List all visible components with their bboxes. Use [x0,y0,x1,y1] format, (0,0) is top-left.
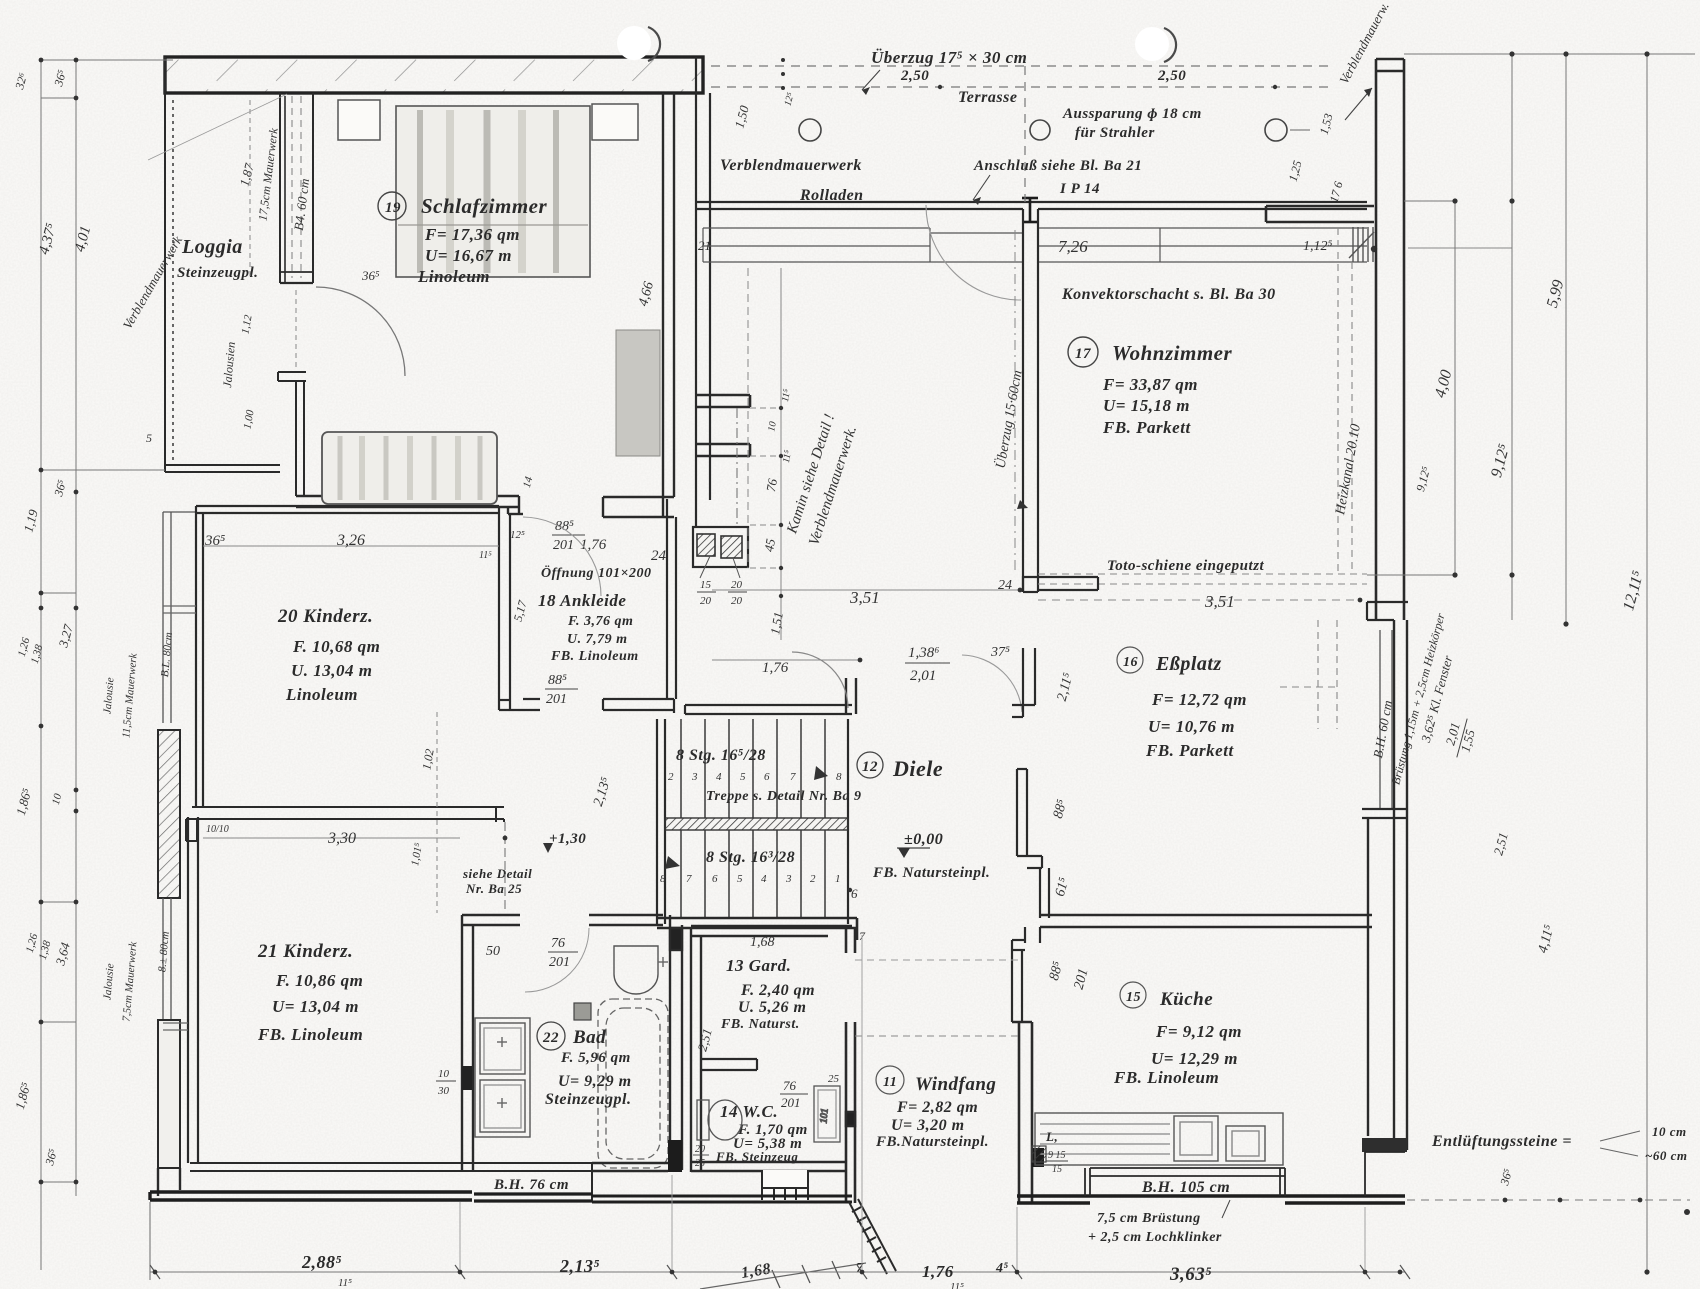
bed [396,106,590,277]
svg-text:50: 50 [486,944,500,959]
bottom right dashed dim [1407,1199,1690,1201]
svg-text:Bad: Bad [572,1027,606,1048]
svg-text:~60 cm: ~60 cm [1645,1148,1688,1163]
top hatched wall band of bedroom block [165,57,703,93]
svg-text:3,51: 3,51 [1204,592,1235,611]
porch diagonal wall hatched [849,1199,896,1274]
svg-text:15: 15 [1052,1164,1062,1175]
svg-text:6: 6 [712,873,718,885]
svg-text:F= 2,82 qm: F= 2,82 qm [896,1099,978,1116]
wall essplatz west jog top [1012,576,1038,717]
svg-text:7: 7 [859,929,866,943]
wall ankleide south [523,699,674,713]
wall east lower [1368,620,1407,1150]
room label 12 Diele [857,752,943,781]
svg-text:3: 3 [691,771,698,783]
svg-text:Wohnzimmer: Wohnzimmer [1112,341,1232,365]
svg-text:Öffnung 101×200: Öffnung 101×200 [541,564,652,581]
wall gard north [691,926,852,936]
radiator notch bad west [462,1066,472,1090]
stair labels lower [660,849,858,901]
svg-text:7,5 cm Brüstung: 7,5 cm Brüstung [1097,1211,1201,1226]
window sill room20 [163,606,196,613]
wardrobe shaded bedroom east [616,330,660,456]
svg-text:4: 4 [761,873,767,885]
svg-text:5: 5 [146,431,152,445]
svg-text:F= 12,72 qm: F= 12,72 qm [1151,690,1247,709]
svg-text:2,13⁵: 2,13⁵ [559,1256,600,1276]
wall left shell bottom corner [158,1168,180,1196]
terrace dashed edge lines [711,66,1330,202]
svg-text:±0,00: ±0,00 [904,831,943,848]
svg-text:U= 15,18 m: U= 15,18 m [1103,396,1190,415]
room label 18 Ankleide [538,564,652,664]
svg-text:1,76: 1,76 [922,1262,954,1281]
wall east shell of bedroom block [696,57,710,527]
svg-text:Eßplatz: Eßplatz [1155,653,1222,675]
svg-text:10/10: 10/10 [206,824,229,835]
svg-text:8 Stg. 16⁵/28: 8 Stg. 16⁵/28 [676,747,766,764]
corner blob wc south [668,1140,682,1172]
svg-text:FB. Linoleum: FB. Linoleum [550,649,639,664]
wall kueche east block [1362,1138,1407,1152]
svg-text:8: 8 [660,873,666,885]
wall kueche south thick [1017,1196,1405,1203]
svg-text:Entlüftungssteine =: Entlüftungssteine = [1431,1133,1572,1150]
pier hatched right of window [1349,227,1374,262]
wall outer south bad thick [474,1194,592,1201]
ticks left dims [39,58,79,1185]
kamin dim verticals [748,268,781,640]
svg-text:+1,30: +1,30 [549,831,586,847]
wall outer south room21 thick [150,1192,472,1200]
dim 3,51 diele [712,588,1022,607]
svg-text:36⁵: 36⁵ [361,268,380,283]
svg-text:11⁵: 11⁵ [950,1281,964,1289]
wall essplatz/kueche divider [1040,915,1372,927]
svg-text:24: 24 [998,578,1012,593]
svg-text:5: 5 [740,771,746,783]
svg-text:B.H. 76 cm: B.H. 76 cm [493,1177,569,1193]
svg-text:FB.Natursteinpl.: FB.Natursteinpl. [875,1134,989,1150]
svg-text:1,76: 1,76 [762,660,789,676]
svg-text:U. 7,79 m: U. 7,79 m [567,632,628,647]
wall room21 south inner [190,1163,462,1171]
svg-text:F= 9,12 qm: F= 9,12 qm [1155,1022,1242,1041]
svg-text:FB. Naturst.: FB. Naturst. [720,1017,800,1032]
svg-text:Loggia: Loggia [181,236,243,258]
wall stub right of stairs door [846,678,856,714]
svg-text:Verblendmauerwerk: Verblendmauerwerk [720,157,862,174]
svg-text:21: 21 [698,238,711,253]
room label 17 Wohnzimmer [1068,337,1232,437]
svg-text:FB. Parkett: FB. Parkett [1102,418,1191,437]
heizkanal dashed [1038,228,1367,584]
door arc terrace [926,205,1021,300]
terrace tick dots [781,58,1277,90]
dim 3,51 essplatz top [990,578,1362,660]
svg-text:F. 2,40 qm: F. 2,40 qm [740,982,815,999]
svg-text:101: 101 [818,1108,830,1124]
svg-text:11: 11 [883,1075,897,1090]
svg-text:U= 9,29 m: U= 9,29 m [558,1073,632,1090]
svg-text:12⁵: 12⁵ [510,529,525,541]
room label 19 Schlafzimmer [378,192,548,286]
svg-text:11⁵: 11⁵ [338,1277,352,1289]
wall room20/21 divider [186,807,504,841]
dim 88/201 ankleide south [511,475,578,707]
svg-text:7,26: 7,26 [1058,237,1088,256]
svg-text:F= 33,87 qm: F= 33,87 qm [1102,375,1198,394]
corridor thin line [504,822,506,913]
wall bedroom southwest stub [278,372,306,496]
svg-text:Windfang: Windfang [915,1074,996,1095]
wall south wc block [592,1163,668,1171]
svg-text:25: 25 [828,1073,840,1085]
wall bedroom east [663,93,674,517]
svg-text:U= 3,20 m: U= 3,20 m [891,1117,965,1134]
svg-text:19: 19 [385,200,401,216]
bathtub bad dashed [598,999,668,1168]
wall wc east / windfang west [846,929,855,1203]
room label 22 Bad [537,1022,632,1108]
wall bad south window [462,1163,592,1202]
wall south of stairs [657,918,866,943]
stair treads lower flight [681,830,825,918]
svg-text:FB. Linoleum: FB. Linoleum [1113,1068,1219,1087]
svg-text:U= 13,04 m: U= 13,04 m [272,997,359,1016]
kueche south window sill [1085,1152,1405,1196]
kamin flue wall chunks [695,395,750,456]
corner blob kueche [1032,1148,1044,1167]
svg-text:U= 12,29 m: U= 12,29 m [1151,1049,1238,1068]
radiator gard east [814,1086,840,1142]
wall bedroom south right piece [603,497,674,517]
wall gard west [691,928,701,1172]
paper punch hole left [617,26,660,61]
wall room20 north [196,506,499,513]
door arc loggia-bedroom [316,287,405,376]
svg-text:201: 201 [549,955,570,970]
stairs block boundary [657,719,848,924]
dim dashed loggia [250,100,296,370]
svg-text:Steinzeugpl.: Steinzeugpl. [177,265,258,281]
north facade wall line [696,202,1367,209]
svg-text:22: 22 [542,1030,559,1046]
svg-text:I P 14: I P 14 [1059,181,1100,197]
wall essplatz west mid [1017,769,1042,868]
svg-text:2,50: 2,50 [1157,68,1186,84]
svg-text:Diele: Diele [892,756,943,781]
svg-text:1: 1 [835,873,841,885]
svg-text:18 Ankleide: 18 Ankleide [538,591,626,610]
corridor labels [203,712,586,913]
window band east essplatz [1380,630,1392,809]
svg-text:4⁵: 4⁵ [995,1261,1009,1276]
paper punch hole right [1135,27,1176,62]
wall east outer double [1376,59,1404,620]
svg-text:201: 201 [546,692,567,707]
wall gard/wc divider [701,1059,757,1070]
wall bad north with door gap [462,915,663,925]
stair labels upper [668,747,861,804]
svg-text:14 W.C.: 14 W.C. [720,1102,778,1121]
svg-text:F= 17,36 qm: F= 17,36 qm [424,225,520,244]
wall corridor above stairs [685,705,852,714]
room label 20 Kinderz [277,606,380,704]
svg-text:15: 15 [700,579,712,591]
kueche door corner detail [1045,1129,1068,1175]
labels left dim col [12,68,94,1167]
svg-text:76: 76 [551,936,565,951]
svg-text:3,30: 3,30 [327,830,356,847]
svg-text:11⁵: 11⁵ [479,550,492,561]
nightstand left [338,100,380,140]
svg-text:25: 25 [695,1158,705,1169]
svg-text:20: 20 [731,579,743,591]
svg-text:1,76: 1,76 [580,537,607,553]
svg-text:U= 16,67 m: U= 16,67 m [425,246,512,265]
svg-text:12: 12 [862,759,878,775]
door arc diele-essplatz [962,655,1022,712]
wall ankleide east [667,499,676,699]
svg-text:U= 10,76 m: U= 10,76 m [1148,717,1235,736]
svg-text:8 Stg. 16³/28: 8 Stg. 16³/28 [706,849,795,866]
dim connector verticals bottom [460,935,1365,1270]
svg-text:Aussparung ɸ 18 cm: Aussparung ɸ 18 cm [1062,106,1202,122]
wall stub north-east [1266,206,1374,222]
wall left shell pier lower [158,1020,180,1168]
room label 21 Kinderz [257,941,363,1044]
svg-text:10 cm: 10 cm [1652,1124,1687,1139]
svg-text:1,38⁶: 1,38⁶ [908,645,939,661]
wall loggia south [165,465,280,472]
svg-text:9 15: 9 15 [1048,1150,1066,1161]
wall wc south [691,1162,846,1171]
diagonal dim 1,68 porch [700,1260,866,1289]
svg-text:16: 16 [1123,655,1138,670]
right dim col lines [1367,54,1695,1272]
dim 88/201 door bedroom [510,519,667,564]
svg-text:4: 4 [716,771,722,783]
wall bedroom south [296,496,523,514]
svg-text:Nr. Ba 25: Nr. Ba 25 [465,881,522,896]
svg-text:Linoleum: Linoleum [417,267,490,286]
dim line left col inner x76 [41,60,173,1270]
svg-text:L,: L, [1045,1129,1058,1144]
svg-text:7: 7 [790,771,796,783]
bottom dim ticks [150,1265,1410,1279]
svg-text:201: 201 [553,538,574,553]
svg-text:10: 10 [766,421,779,433]
svg-text:2: 2 [668,771,674,783]
wall kueche west upper [1040,868,1049,918]
dim 76/201 wc door [780,1073,840,1110]
kamin flue center dashdot [736,408,738,525]
svg-text:10: 10 [438,1068,450,1080]
svg-text:U. 5,26 m: U. 5,26 m [738,999,807,1016]
room label 14 WC [715,1102,808,1164]
svg-text:Konvektorschacht s. Bl. Ba 30: Konvektorschacht s. Bl. Ba 30 [1061,286,1276,303]
door arc diele [792,652,848,708]
svg-text:Terrasse: Terrasse [958,89,1017,106]
svg-text:B.H. 105 cm: B.H. 105 cm [1141,1179,1230,1196]
svg-text:3,26: 3,26 [336,532,365,549]
room label 13 Gard [694,935,815,1053]
svg-text:2,88⁵: 2,88⁵ [301,1252,342,1272]
svg-text:Steinzeugpl.: Steinzeugpl. [545,1091,631,1108]
svg-text:+ 2,5 cm Lochklinker: + 2,5 cm Lochklinker [1088,1230,1222,1245]
dim 1,76 and 1,38/2,01 [712,645,950,684]
wall left shell window room21 [163,898,171,1020]
svg-text:13 Gard.: 13 Gard. [726,956,791,975]
bottom dim line [150,1202,1405,1280]
wall room20/18 divider east [499,506,523,710]
svg-text:3: 3 [785,873,792,885]
dim 3,26 room20 [203,532,499,561]
wall east stub 809 [1362,809,1407,818]
nightstand right [592,104,638,140]
strahler circles [799,119,1287,141]
svg-text:36⁵: 36⁵ [204,533,225,549]
svg-text:88⁵: 88⁵ [555,519,574,534]
svg-text:Toto-schiene eingeputzt: Toto-schiene eingeputzt [1107,558,1265,574]
svg-text:30: 30 [437,1085,450,1097]
wall room21/bad divider east [462,915,473,1170]
room label Loggia [177,236,258,281]
svg-text:siehe Detail: siehe Detail [462,866,532,881]
wall room20 west inner [196,506,203,807]
porch steps below bad [762,1170,808,1200]
svg-text:37⁵: 37⁵ [990,645,1010,660]
kamin box [693,527,748,607]
wall loggia/bedroom divider [280,93,313,283]
door arc bad [525,928,589,992]
couch bedroom [322,432,497,504]
svg-text:Anschluß siehe Bl. Ba 21: Anschluß siehe Bl. Ba 21 [973,158,1142,174]
svg-text:2: 2 [810,873,816,885]
svg-text:1,68: 1,68 [750,935,775,950]
svg-text:2,01: 2,01 [910,668,936,684]
svg-text:für Strahler: für Strahler [1075,125,1155,141]
svg-text:F. 3,76 qm: F. 3,76 qm [567,614,633,629]
wall room21 west inner [188,817,198,1163]
svg-text:8: 8 [836,771,842,783]
svg-text:Linoleum: Linoleum [285,685,358,704]
wall wohnzimmer west [1023,209,1038,592]
dim 50 and 76/201 bad door [486,936,578,970]
wall left outer (loggia west wall) [165,57,173,470]
svg-text:11⁵: 11⁵ [780,388,793,403]
window sill room21 [163,1023,188,1030]
wall outer south porch [592,1196,852,1202]
label jalousie pair upper [101,632,175,739]
svg-text:Überzug 17⁵ × 30 cm: Überzug 17⁵ × 30 cm [871,48,1027,67]
wall left shell window room20 [163,512,196,723]
svg-text:1,12⁵: 1,12⁵ [1303,239,1333,254]
svg-text:FB. Parkett: FB. Parkett [1145,741,1234,760]
svg-text:20: 20 [700,595,712,607]
wall left shell pier hatched upper [158,730,180,898]
wall east step at 600 [1367,602,1408,620]
wall bad east [670,915,682,1170]
wall kueche west jog [1012,927,1040,1022]
svg-text:24: 24 [651,548,667,564]
level mark 0,00 [872,831,990,881]
window band north wohnzimmer [1038,228,1367,262]
stair landing hatched [665,818,848,830]
svg-text:Küche: Küche [1159,989,1213,1010]
room label 11 Windfang [875,1066,996,1150]
svg-text:6: 6 [764,771,770,783]
svg-text:17: 17 [1075,346,1091,362]
heizkanal dashed essplatz [1280,620,1337,729]
svg-text:FB. Natursteinpl.: FB. Natursteinpl. [872,865,990,881]
svg-text:3,63⁵: 3,63⁵ [1169,1264,1212,1285]
svg-text:15: 15 [1126,990,1141,1005]
svg-text:FB. Linoleum: FB. Linoleum [257,1025,363,1044]
svg-text:201: 201 [781,1095,801,1110]
svg-text:F. 10,86 qm: F. 10,86 qm [275,971,363,990]
beam IP14 symbol [1022,198,1038,222]
door arc bedroom-ankleide [523,517,601,596]
svg-text:20: 20 [695,1144,705,1155]
svg-text:F. 10,68 qm: F. 10,68 qm [292,637,380,656]
stair treads upper flight [681,719,825,818]
svg-text:Rolladen: Rolladen [799,187,864,204]
wall kueche/windfang [1012,1022,1032,1203]
room label 15 Kueche [1113,982,1242,1087]
toilet bad [614,946,668,994]
room label 16 Essplatz [1117,647,1247,760]
windfang dashes [855,1035,1019,1037]
label jalousie pair lower [101,931,171,1022]
svg-text:88⁵: 88⁵ [548,673,567,688]
kueche counter [1035,1113,1283,1165]
svg-text:6: 6 [851,886,858,901]
svg-text:20: 20 [731,595,743,607]
svg-text:Treppe s. Detail Nr. Ba 9: Treppe s. Detail Nr. Ba 9 [706,789,861,804]
svg-text:11⁵: 11⁵ [781,449,794,464]
svg-text:21 Kinderz.: 21 Kinderz. [257,941,353,962]
washbasin unit bad [475,1018,530,1137]
svg-text:2,50: 2,50 [900,68,929,84]
ueberzug dash line wohnzimmer west [1014,230,1016,570]
svg-text:U. 13,04 m: U. 13,04 m [291,661,373,680]
svg-text:Schlafzimmer: Schlafzimmer [421,194,548,218]
svg-text:3,51: 3,51 [849,588,880,607]
svg-text:20 Kinderz.: 20 Kinderz. [277,606,373,627]
svg-text:7: 7 [686,873,692,885]
svg-text:5: 5 [737,873,743,885]
svg-text:76: 76 [783,1078,797,1093]
drain square bad [574,1003,591,1020]
toilet wc [697,1100,742,1140]
window band north left [703,228,1023,262]
svg-text:F. 5,96 qm: F. 5,96 qm [560,1050,631,1066]
wall stub essplatz north [1023,577,1098,590]
